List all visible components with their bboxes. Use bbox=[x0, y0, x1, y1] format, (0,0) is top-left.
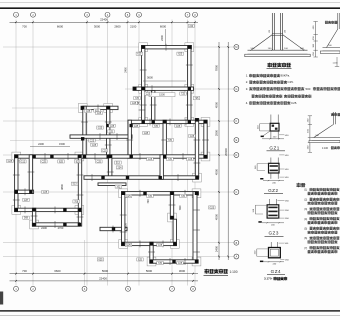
wall x=30.9 bbox=[29, 155, 32, 194]
long dim tag below wall bbox=[149, 93, 175, 97]
svg-text:C25.: C25. bbox=[291, 101, 297, 105]
wall x=129.7 bbox=[128, 120, 131, 158]
axis circle B right bbox=[234, 240, 239, 245]
svg-text:C25: C25 bbox=[90, 139, 95, 142]
svg-text:513: 513 bbox=[73, 183, 78, 186]
svg-text:2700: 2700 bbox=[58, 226, 64, 230]
svg-text:C25: C25 bbox=[43, 191, 48, 194]
axis circle 2 bottom bbox=[31, 286, 36, 291]
right dimension line 1 bbox=[218, 42, 220, 260]
wall x=153 bbox=[152, 91, 155, 124]
svg-text:C: C bbox=[236, 191, 238, 194]
axis circle C right bbox=[234, 190, 239, 195]
svg-text:G37: G37 bbox=[24, 199, 29, 202]
svg-text:625: 625 bbox=[59, 160, 64, 163]
svg-text:2100: 2100 bbox=[130, 24, 137, 28]
axis circle 4 top bbox=[105, 12, 110, 17]
vertical gridline axis x=172 bbox=[171, 20, 173, 286]
wall y=136.6 bbox=[70, 135, 132, 138]
wall y=121.9 bbox=[128, 120, 207, 123]
svg-text:C25: C25 bbox=[176, 125, 181, 128]
svg-text:6000: 6000 bbox=[160, 24, 167, 28]
vertical gridline axis x=16 bbox=[15, 20, 17, 286]
title column footing detail bbox=[268, 63, 272, 67]
wall y=224.5 left bbox=[32, 223, 79, 226]
svg-text:G25: G25 bbox=[8, 160, 13, 163]
plan title 基础平面图 1:100 bbox=[205, 269, 209, 273]
axis circle 1 bottom bbox=[14, 286, 19, 291]
wall y=107.9 bbox=[81, 106, 118, 109]
vertical gridline axis x=139 bbox=[138, 20, 140, 286]
svg-text:(6): (6) bbox=[304, 237, 307, 240]
svg-text:C25: C25 bbox=[190, 135, 195, 138]
bottom dimension line 1 bbox=[10, 273, 199, 275]
svg-text:G25: G25 bbox=[134, 125, 139, 128]
svg-text:GZ4: GZ4 bbox=[271, 269, 281, 274]
svg-text:C25: C25 bbox=[178, 262, 183, 265]
svg-text:1:100: 1:100 bbox=[322, 147, 329, 150]
top faint frame line bbox=[0, 2, 340, 4]
GZ1 column section detail bbox=[270, 115, 272, 124]
wall dimension tags bbox=[136, 52, 143, 55]
axis circle 5 top bbox=[125, 12, 130, 17]
svg-text:G25: G25 bbox=[210, 206, 215, 209]
svg-text:C25: C25 bbox=[92, 144, 97, 147]
horizontal gridline axis y=155 bbox=[3, 154, 234, 156]
svg-text:5600: 5600 bbox=[147, 76, 153, 80]
svg-text:2900: 2900 bbox=[215, 129, 219, 136]
left edge binding mark bbox=[0, 292, 3, 305]
wall x=151.5 protrusion bbox=[150, 242, 153, 263]
wall x=110 lower bbox=[109, 155, 112, 178]
wall x=84.5 bbox=[83, 106, 86, 158]
svg-text:4500: 4500 bbox=[125, 223, 128, 229]
footing slope left bbox=[251, 35, 272, 51]
svg-text:725: 725 bbox=[168, 139, 173, 142]
svg-text:625: 625 bbox=[76, 160, 81, 163]
GZ3 column section detail bbox=[269, 199, 271, 205]
svg-text:725: 725 bbox=[148, 195, 153, 198]
svg-text:3800: 3800 bbox=[60, 184, 64, 190]
svg-text:C25: C25 bbox=[126, 195, 131, 198]
GZ4 box bbox=[269, 248, 281, 258]
wall y=193.3 bottom-center top bbox=[122, 192, 199, 195]
footing slope right bbox=[283, 35, 304, 51]
wall x=16.3 left wing bbox=[15, 155, 18, 212]
svg-text:C25: C25 bbox=[148, 158, 153, 161]
wall x=174 lower bbox=[173, 219, 176, 245]
svg-text:G: G bbox=[235, 88, 237, 91]
wall y=243.9 bottom bbox=[122, 242, 177, 245]
wall section crossing dashes bbox=[165, 44, 167, 51]
svg-text:2400: 2400 bbox=[160, 35, 164, 41]
svg-text:625: 625 bbox=[137, 53, 142, 56]
svg-text:G12: G12 bbox=[21, 160, 26, 163]
footing detail 2 (cut off at right edge) bbox=[337, 13, 339, 29]
wall x=34.1 short bbox=[32, 208, 35, 226]
svg-text:(7): (7) bbox=[304, 247, 307, 250]
svg-text:325: 325 bbox=[109, 130, 114, 133]
vertical gridline axis x=33 bbox=[32, 20, 34, 286]
wall y=261.5 protrusion bbox=[150, 260, 198, 263]
axis circle 8 bottom bbox=[191, 286, 196, 291]
svg-text:5600: 5600 bbox=[102, 269, 109, 273]
GZ2 column section detail bbox=[270, 158, 272, 164]
svg-text:22400: 22400 bbox=[99, 277, 107, 281]
horizontal gridline axis y=121 bbox=[3, 120, 234, 122]
svg-text:C25: C25 bbox=[146, 92, 151, 95]
svg-text:D: D bbox=[236, 154, 238, 157]
horizontal gridline axis y=140.5 (partial) bbox=[10, 140, 128, 142]
svg-text:(3): (3) bbox=[304, 208, 307, 211]
footing2 slope bbox=[327, 29, 338, 48]
wall bump left bbox=[142, 46, 145, 91]
svg-text:4500: 4500 bbox=[215, 168, 219, 175]
GZ4 column section detail bbox=[270, 242, 272, 248]
axis circle 5 bottom bbox=[126, 286, 131, 291]
svg-text:G25: G25 bbox=[98, 126, 103, 129]
wall x=196.5 lower bbox=[193, 192, 197, 264]
wall y=183.5 short bbox=[98, 183, 126, 186]
horizontal gridline axis y=242.7 bbox=[3, 242, 234, 244]
axis circle 1 top bbox=[14, 12, 19, 17]
footing base top bbox=[248, 49, 308, 51]
svg-text:3000: 3000 bbox=[179, 269, 186, 273]
svg-text:725: 725 bbox=[158, 262, 163, 265]
axis circle A right bbox=[234, 254, 239, 259]
GZ2 box bbox=[269, 163, 280, 173]
svg-text:3000: 3000 bbox=[94, 24, 101, 28]
svg-text:1500: 1500 bbox=[159, 93, 165, 97]
axis circle 7 top bbox=[185, 12, 190, 17]
svg-text:6600: 6600 bbox=[57, 24, 64, 28]
axis circle 8 top bbox=[193, 12, 198, 17]
footing3 slope bbox=[314, 124, 334, 137]
footing base bottom bbox=[248, 53, 308, 55]
axis circle 7 bottom bbox=[170, 286, 175, 291]
wall y=209.9 bbox=[15, 208, 82, 211]
svg-text:C25: C25 bbox=[158, 244, 163, 247]
column footing squares (black) bbox=[142, 46, 145, 49]
GZ3 box bbox=[267, 205, 279, 218]
vertical gridline axis x=195 bbox=[194, 20, 196, 286]
footing2 blinding bbox=[320, 51, 340, 53]
svg-text:700: 700 bbox=[22, 24, 27, 28]
GZ1 box bbox=[270, 123, 279, 131]
svg-text:GZ2: GZ2 bbox=[268, 188, 278, 193]
bottom faint frame line bbox=[0, 314, 340, 316]
svg-text:C25: C25 bbox=[86, 110, 91, 113]
axis circle 3 top bbox=[85, 12, 90, 17]
horizontal gridline axis y=47 bbox=[3, 46, 234, 48]
spread footing outlines at column positions bbox=[139, 43, 148, 52]
svg-text:20900: 20900 bbox=[224, 148, 228, 156]
horizontal gridline axis y=192 bbox=[3, 191, 234, 193]
svg-text:C25: C25 bbox=[102, 149, 107, 152]
svg-text:513: 513 bbox=[116, 162, 121, 165]
svg-text:1.: 1. bbox=[246, 74, 249, 78]
svg-text:80KPa.: 80KPa. bbox=[281, 74, 291, 78]
wall bump right bbox=[188, 46, 191, 124]
svg-text:G25: G25 bbox=[126, 244, 131, 247]
top thick border line bbox=[0, 7, 340, 9]
svg-text:700: 700 bbox=[147, 199, 150, 204]
svg-text:708: 708 bbox=[74, 200, 79, 203]
svg-text:102: 102 bbox=[116, 186, 121, 189]
footing detail 1 right dim stack bbox=[315, 22, 317, 58]
svg-text:(4): (4) bbox=[304, 218, 307, 221]
wall x=172 upper bbox=[170, 192, 173, 220]
svg-text:2600: 2600 bbox=[114, 24, 121, 28]
bottom thick border line bbox=[0, 310, 340, 312]
svg-text:(1): (1) bbox=[304, 189, 307, 192]
footing detail: column pedestal section bbox=[271, 13, 273, 50]
wall y=177.5 long bbox=[84, 176, 199, 180]
svg-text:4500: 4500 bbox=[215, 213, 219, 220]
svg-text:6600: 6600 bbox=[54, 269, 61, 273]
svg-text:C25: C25 bbox=[110, 125, 115, 128]
wall x=198 middle right bbox=[195, 119, 198, 178]
vertical gridline axis x=107.5 bbox=[107, 20, 109, 286]
svg-text:725: 725 bbox=[181, 195, 186, 198]
wall x=143 lower bbox=[142, 87, 145, 124]
svg-text:C25: C25 bbox=[97, 160, 102, 163]
svg-text:C25: C25 bbox=[188, 158, 193, 161]
svg-text:1:100: 1:100 bbox=[230, 270, 238, 274]
right dimension line 2 (total) bbox=[227, 42, 229, 260]
svg-text:625: 625 bbox=[99, 258, 104, 261]
svg-text:(5): (5) bbox=[304, 228, 307, 231]
svg-text:2.: 2. bbox=[246, 80, 249, 84]
svg-text:22400: 22400 bbox=[100, 18, 108, 22]
svg-text:3.: 3. bbox=[246, 87, 249, 91]
top dimension line bbox=[10, 21, 199, 23]
svg-text:725: 725 bbox=[154, 125, 159, 128]
wall x=123.2 bbox=[122, 192, 125, 246]
horizontal gridline axis y=89 (partial) bbox=[125, 88, 234, 90]
axis circle M right bbox=[234, 45, 239, 50]
axis circle G right bbox=[234, 87, 239, 92]
footing blinding slab bbox=[245, 54, 310, 57]
svg-text:625: 625 bbox=[178, 53, 183, 56]
wall y=88.7 bbox=[133, 87, 194, 90]
wall x=108.2 upper bbox=[107, 106, 110, 158]
wall bump top bbox=[142, 46, 192, 49]
svg-text:625: 625 bbox=[138, 258, 143, 261]
svg-text:1.200: 1.200 bbox=[333, 63, 339, 65]
vertical gridline axis x=187.5 bbox=[187, 20, 189, 286]
tiny label top right 室内地坪标高 bbox=[325, 21, 328, 24]
svg-text:C25.: C25. bbox=[288, 80, 294, 84]
svg-text:7800: 7800 bbox=[215, 64, 219, 71]
svg-text:2400: 2400 bbox=[215, 245, 219, 252]
axis circle 2 top bbox=[31, 12, 36, 17]
svg-text:2400: 2400 bbox=[41, 226, 47, 230]
svg-text:700: 700 bbox=[22, 269, 27, 273]
wall x=161.5 short bbox=[160, 155, 163, 180]
notes header (pseudo CJK bold) bbox=[297, 183, 301, 187]
wall y=229 mid bbox=[100, 227, 127, 230]
tiny label footing3 bbox=[331, 113, 334, 116]
bottom dimension line 2 (total) bbox=[10, 280, 199, 282]
svg-text:M: M bbox=[235, 46, 237, 49]
axis circle F right bbox=[234, 119, 239, 124]
svg-text:234: 234 bbox=[118, 166, 123, 169]
vertical gridline axis x=127.5 bbox=[127, 20, 129, 286]
wall main y=156.5 bbox=[15, 155, 208, 158]
svg-text:725: 725 bbox=[135, 97, 140, 100]
svg-text:725: 725 bbox=[195, 97, 200, 100]
svg-text:G25: G25 bbox=[144, 132, 149, 135]
wall y=191.8 left bbox=[15, 190, 34, 193]
svg-text:2400: 2400 bbox=[125, 67, 128, 73]
axis circle E right bbox=[234, 138, 239, 143]
partial horizontal gridline y=108 bbox=[12, 107, 81, 109]
svg-text:3.170-: 3.170- bbox=[264, 277, 273, 281]
svg-text:568: 568 bbox=[24, 217, 29, 220]
axis circle D right bbox=[234, 153, 239, 158]
svg-text:725: 725 bbox=[181, 92, 186, 95]
axis circle 3 bottom bbox=[82, 286, 87, 291]
svg-text:5600: 5600 bbox=[146, 269, 153, 273]
svg-text:GZ1: GZ1 bbox=[269, 145, 279, 150]
svg-text:GZ3: GZ3 bbox=[268, 231, 278, 236]
svg-text:2400: 2400 bbox=[38, 142, 44, 146]
svg-text:4.: 4. bbox=[246, 101, 249, 105]
vertical gridline axis x=87 bbox=[86, 20, 88, 286]
svg-text:725: 725 bbox=[168, 158, 173, 161]
svg-text:C25: C25 bbox=[42, 160, 47, 163]
svg-text:7%0: 7%0 bbox=[179, 205, 182, 210]
axis circle 6 top bbox=[137, 12, 142, 17]
horizontal gridline axis y=256.5 bbox=[3, 256, 234, 258]
svg-text:4500: 4500 bbox=[215, 101, 219, 108]
vertical gridline axis x=84.5 (partial) bbox=[84, 240, 86, 286]
wall x=80 bbox=[78, 155, 81, 226]
wall x=164.7 bbox=[163, 120, 166, 158]
svg-text:500: 500 bbox=[306, 87, 311, 91]
svg-text:1500: 1500 bbox=[59, 142, 65, 146]
svg-text:G25: G25 bbox=[132, 102, 137, 105]
svg-text:(2): (2) bbox=[304, 198, 307, 201]
wall x=205.5 bbox=[204, 120, 207, 158]
svg-text:C25: C25 bbox=[97, 112, 102, 115]
footing3 blinding bbox=[309, 140, 340, 142]
